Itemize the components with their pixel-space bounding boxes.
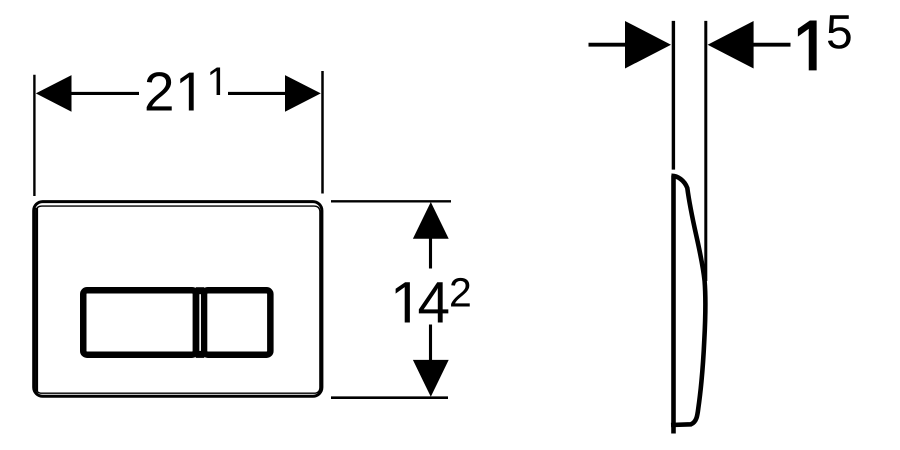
plate left edge thickening line bbox=[35, 208, 38, 391]
arrowhead right of width dim bbox=[285, 75, 321, 112]
width dim text 21 digit 2 bbox=[147, 72, 172, 110]
width dim line right segment bbox=[228, 92, 286, 95]
tick line top of height dim bbox=[331, 200, 451, 202]
button right (small flush button) bbox=[204, 290, 270, 355]
arrowhead up of height dim bbox=[413, 202, 449, 239]
extension line left of width dim bbox=[33, 75, 35, 196]
arrowhead left of width dim bbox=[36, 75, 72, 112]
extension line right of width dim bbox=[321, 71, 324, 194]
height dim text 14 digit 4 bbox=[419, 282, 448, 322]
button left (large flush button) bbox=[83, 290, 196, 355]
arrowhead pointing left of thickness dim bbox=[708, 21, 754, 69]
height dim line upper segment bbox=[429, 237, 432, 269]
button divider bar bbox=[196, 287, 205, 358]
button divider seam bbox=[199, 294, 201, 351]
width dim superscript 1 bbox=[210, 67, 220, 95]
thickness dim superscript 5 bbox=[828, 15, 851, 48]
thickness dim tail right bbox=[753, 43, 791, 47]
width dim line left segment bbox=[70, 92, 139, 95]
height dim text 14 digit 1 bbox=[396, 282, 410, 322]
side view extension line left bbox=[672, 21, 675, 170]
plate inner edge line bbox=[36, 206, 320, 393]
tick line bottom of height dim bbox=[331, 396, 448, 399]
height dim line lower segment bbox=[429, 325, 432, 361]
arrowhead down of height dim bbox=[413, 360, 449, 397]
plate outer outline (front view) bbox=[34, 202, 322, 397]
width dim text 21 digit 1 bbox=[180, 73, 193, 111]
side profile front outline bbox=[671, 176, 705, 425]
height dim superscript 2 bbox=[451, 278, 470, 307]
thickness dim tail left bbox=[589, 43, 627, 47]
thickness dim text 1 bbox=[799, 21, 816, 69]
arrowhead pointing right of thickness dim bbox=[625, 21, 671, 69]
side profile back edge line bbox=[671, 175, 676, 433]
side view extension line right bbox=[704, 21, 707, 281]
